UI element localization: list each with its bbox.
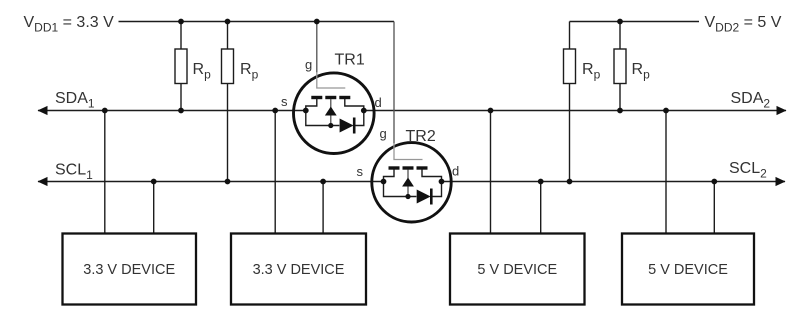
node SDA2-R4: [617, 108, 623, 114]
svg-text:3.3 V DEVICE: 3.3 V DEVICE: [253, 262, 345, 278]
resistor Rp R4: [614, 49, 626, 84]
TR1 drain node: [361, 108, 367, 114]
TR1 source elbow: [306, 99, 317, 111]
wire R3 bottom to SCL2: [569, 84, 571, 182]
node SDA2-device4: [663, 108, 669, 114]
node SCL2-R3: [567, 179, 573, 185]
node SDA1-R1: [178, 108, 184, 114]
wire device2 SCL tap: [322, 182, 324, 234]
svg-text:5 V DEVICE: 5 V DEVICE: [648, 262, 728, 278]
TR1 gate wire from VDD1 rail: [316, 22, 318, 74]
arrow SDA1 left: [38, 106, 48, 115]
node SCL1-R2: [225, 179, 231, 185]
arrow SCL2 right: [776, 177, 786, 186]
TR1 channel bar source: [311, 96, 322, 99]
wire device2 SDA tap: [274, 111, 276, 234]
svg-text:3.3 V DEVICE: 3.3 V DEVICE: [83, 262, 175, 278]
TR1 substrate wire: [330, 99, 332, 126]
node SDA1-device1: [102, 108, 108, 114]
svg-text:VDD2 = 5 V: VDD2 = 5 V: [705, 14, 782, 35]
TR2 body diode triangle: [417, 190, 431, 204]
device box 4: [622, 234, 754, 305]
node VDD1-R2: [225, 19, 231, 25]
TR2 channel bar source: [389, 166, 400, 169]
TR2 source node: [381, 179, 387, 185]
node VDD1-R1: [178, 19, 184, 25]
resistor Rp R2: [222, 49, 234, 84]
device box 3: [450, 234, 585, 305]
wire device4 SDA tap: [665, 111, 667, 234]
svg-text:Rp: Rp: [632, 61, 651, 82]
transistor TR1: [281, 22, 382, 154]
svg-text:TR2: TR2: [406, 128, 436, 145]
TR2 gate wire from VDD1 rail: [393, 22, 395, 144]
wire device1 SCL tap: [153, 182, 155, 234]
svg-text:d: d: [375, 95, 382, 110]
TR2 substrate wire: [407, 170, 409, 197]
wire R2 bottom to SCL1: [227, 84, 229, 182]
node VDD1-TR1 gate: [314, 19, 320, 25]
svg-text:d: d: [452, 164, 459, 179]
svg-text:VDD1 = 3.3 V: VDD1 = 3.3 V: [24, 14, 115, 35]
node SCL2-device3: [538, 179, 544, 185]
TR1 body circle: [294, 73, 375, 154]
wire VDD1 top rail: [119, 21, 395, 23]
TR1 channel bar drain: [339, 96, 350, 99]
svg-text:5 V DEVICE: 5 V DEVICE: [477, 262, 557, 278]
TR2 drain elbow: [422, 170, 442, 182]
TR2 body circle: [372, 143, 451, 222]
TR2 substrate arrow: [402, 178, 414, 187]
TR1 body diode cathode bar: [353, 118, 356, 134]
wire device1 SDA tap: [104, 111, 106, 234]
wire SDA2: [364, 110, 786, 112]
transistor TR2: [357, 22, 460, 223]
resistor Rp R1: [175, 49, 187, 84]
TR2 body diode cathode bar: [430, 189, 433, 205]
svg-text:s: s: [357, 164, 364, 179]
wire R3 top corner: [569, 22, 571, 50]
TR2 drain node: [439, 179, 445, 185]
wire SCL1: [38, 181, 384, 183]
TR1 drain elbow: [345, 99, 364, 111]
wire R4 top: [619, 22, 621, 50]
TR1 body diode path: [306, 111, 364, 126]
TR2 channel bar drain: [417, 166, 428, 169]
svg-text:g: g: [380, 126, 387, 141]
svg-text:Rp: Rp: [193, 61, 212, 82]
TR2 substrate node: [405, 194, 410, 199]
svg-text:SDA2: SDA2: [731, 90, 771, 111]
TR1 substrate arrow: [325, 107, 337, 116]
resistor Rp R3: [564, 49, 576, 84]
wire R4 bottom to SDA2: [619, 84, 621, 111]
device box 2: [231, 234, 366, 305]
TR1 body diode triangle: [340, 119, 354, 133]
TR1 gate hook: [317, 72, 346, 88]
TR2 channel bar body: [403, 166, 414, 169]
node SDA1-device2: [272, 108, 278, 114]
wire R1 bottom to SDA1: [180, 84, 182, 111]
wire R1 top: [180, 22, 182, 50]
node SCL1-device2: [320, 179, 326, 185]
svg-text:Rp: Rp: [240, 61, 259, 82]
wire device3 SDA tap: [490, 111, 492, 234]
TR1 channel bar body: [325, 96, 336, 99]
wire device4 SCL tap: [713, 182, 715, 234]
arrow SDA2 right: [777, 106, 787, 115]
TR2 body diode path: [384, 182, 442, 197]
svg-text:SDA1: SDA1: [55, 90, 95, 111]
svg-text:SCL2: SCL2: [729, 160, 767, 181]
svg-text:SCL1: SCL1: [55, 162, 93, 183]
svg-text:g: g: [305, 57, 312, 72]
node SCL2-device4: [711, 179, 717, 185]
wire SDA1: [38, 110, 306, 112]
wire VDD2 top rail: [570, 21, 700, 23]
TR1 source node: [303, 108, 309, 114]
TR2 source elbow: [384, 170, 395, 182]
node VDD2-R4: [617, 19, 623, 25]
wire R2 top: [227, 22, 229, 50]
node SCL1-device1: [151, 179, 157, 185]
arrow SCL1 left: [38, 177, 48, 186]
TR2 gate hook: [394, 143, 423, 160]
svg-text:TR1: TR1: [335, 52, 365, 69]
svg-text:s: s: [281, 94, 288, 109]
wire SCL2: [442, 181, 786, 183]
wire device3 SCL tap: [540, 182, 542, 234]
device box 1: [63, 234, 197, 305]
svg-text:Rp: Rp: [582, 61, 601, 82]
TR1 substrate node: [328, 123, 333, 128]
node SDA2-device3: [488, 108, 494, 114]
